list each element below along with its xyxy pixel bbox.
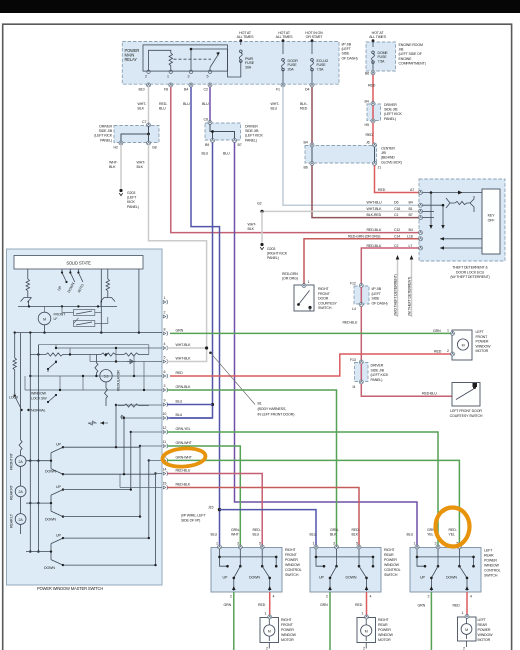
svg-text:4: 4 <box>164 342 166 346</box>
svg-text:GRN-WHT: GRN-WHT <box>176 441 193 445</box>
svg-text:WINDOWLOCK SW: WINDOWLOCK SW <box>31 392 47 401</box>
svg-text:3: 3 <box>164 384 166 388</box>
wire GRN s3 down <box>430 592 432 650</box>
wire BLU B4 down, jog right, down to J15 and switch 1 <box>191 87 220 548</box>
interior: arrows mid <box>88 421 108 425</box>
svg-text:H2: H2 <box>114 146 118 150</box>
LF motor box <box>452 330 472 360</box>
svg-text:2: 2 <box>230 595 232 599</box>
svg-text:3: 3 <box>435 542 437 546</box>
master pin 15 RED-BLK <box>163 485 167 489</box>
ground G203 right kick <box>260 243 263 250</box>
wire BLU B9 down to master rows <box>170 143 213 419</box>
right front door courtesy switch box <box>294 285 314 311</box>
interior: resistor row 354 b <box>101 353 149 356</box>
connector pin D4 <box>310 83 314 87</box>
svg-text:4: 4 <box>273 595 275 599</box>
relay pin stub 2 <box>190 49 192 71</box>
wire RED-BLU pin14 to right front switch <box>167 474 262 548</box>
annotation ellipse 2 (RED-YEL label) <box>436 508 470 547</box>
junction <box>211 130 214 133</box>
LF motor pin 2 <box>451 352 455 356</box>
svg-text:DOWN: DOWN <box>44 566 55 570</box>
RR motor circle <box>361 625 372 636</box>
switch case dot <box>308 306 311 309</box>
wire GRN s1 down <box>233 592 235 650</box>
master pin 14 RED-BLU <box>163 471 167 475</box>
svg-text:RED: RED <box>453 604 461 608</box>
svg-text:DOWN: DOWN <box>45 517 56 521</box>
interior: relay contact box 2 <box>74 321 95 327</box>
svg-text:LEFT FRONT DOORCOURTESY SWITCH: LEFT FRONT DOORCOURTESY SWITCH <box>450 409 483 418</box>
svg-text:2: 2 <box>145 75 147 79</box>
svg-text:L7: L7 <box>409 244 413 248</box>
svg-text:BLU: BLU <box>211 533 218 537</box>
theft internal top line <box>423 192 483 194</box>
connector pin center J/B bottom left <box>310 162 314 166</box>
relay coil zigzag <box>169 53 172 71</box>
svg-text:RED: RED <box>434 350 442 354</box>
svg-text:GRN-BLK: GRN-BLK <box>176 385 192 389</box>
interior: bus 306 <box>18 305 117 307</box>
s2 UP arm <box>330 566 337 591</box>
normal contact dot <box>27 409 29 411</box>
LF motor pin 1 <box>451 331 455 335</box>
left rear motor box <box>458 617 477 641</box>
driver side J/B box left <box>114 126 159 143</box>
master pin 1 <box>163 300 167 304</box>
svg-text:B7: B7 <box>238 143 242 147</box>
breaker REAR RT <box>15 486 26 497</box>
svg-text:1: 1 <box>164 296 166 300</box>
theft pin C14 <box>419 237 423 241</box>
svg-text:4: 4 <box>370 595 372 599</box>
wire GRN s2 down <box>329 592 331 650</box>
wire inside <box>360 287 362 303</box>
svg-text:B1: B1 <box>409 207 413 211</box>
fuse DOOR FUSE 20A <box>282 59 285 71</box>
svg-text:DOWN: DOWN <box>346 576 357 580</box>
wire inside <box>360 364 362 381</box>
svg-text:THEFT DETERRENT &DOOR LOCK ECU: THEFT DETERRENT &DOOR LOCK ECU(W/ THEFT … <box>450 266 489 280</box>
LF motor circle <box>457 339 468 350</box>
interior: REGULATOR circle <box>100 370 112 382</box>
interior: transistor T2 <box>101 294 115 306</box>
svg-text:GRN-WHT: GRN-WHT <box>176 455 193 459</box>
stub wire w theft <box>411 258 413 317</box>
svg-text:D4: D4 <box>305 88 309 92</box>
wire GRN-BLK pin3 to right rear switch <box>167 390 337 548</box>
master switch box <box>7 249 163 585</box>
theft pin A7 <box>419 191 423 195</box>
LR motor bottom stub <box>466 641 468 647</box>
driver side J/B box mid <box>205 123 241 140</box>
svg-text:GRN: GRN <box>224 603 232 607</box>
svg-text:(W/O THEFT DETERRENT): (W/O THEFT DETERRENT) <box>394 274 398 316</box>
svg-text:I4: I4 <box>353 385 356 389</box>
wire RED s3 to motor <box>466 592 468 616</box>
svg-text:2: 2 <box>428 595 430 599</box>
I/P J/B box small <box>354 286 369 304</box>
breaker FRONT RT <box>15 456 26 467</box>
switch arm courtesy RF <box>299 291 310 305</box>
interior: mesh lines mid <box>25 345 162 390</box>
connector pin B6 <box>371 71 375 75</box>
master pin 3 GRN-BLK <box>163 388 167 392</box>
theft resistor <box>455 201 470 204</box>
relay pin stub 3 <box>209 68 211 71</box>
engine room J/B box <box>366 42 396 71</box>
svg-text:DOWN: DOWN <box>45 469 56 473</box>
wire BLU purple B7 down across to rear switch <box>235 143 418 548</box>
interior: mode switch UP <box>62 269 67 282</box>
node dot ECU-IG feed <box>311 39 314 42</box>
svg-text:14: 14 <box>163 468 167 472</box>
wire RED-BLK pin15 to right rear switch <box>167 488 359 548</box>
interior: FRONT LF to bus <box>45 306 102 332</box>
svg-text:3: 3 <box>237 542 239 546</box>
wire RED s2 to motor <box>366 592 368 617</box>
RR motor bottom stub <box>365 643 367 649</box>
svg-text:J15: J15 <box>208 506 213 510</box>
svg-text:1: 1 <box>462 611 464 615</box>
window switch S2 REAR RT <box>26 490 63 517</box>
connector pin B7 <box>233 139 237 143</box>
theft internal vertical 2 <box>423 205 444 225</box>
wire RED s1 to motor <box>269 592 271 617</box>
relay coil loop <box>149 50 171 71</box>
theft internal diode <box>458 191 463 195</box>
interior: right resistor column <box>106 269 109 294</box>
svg-text:3: 3 <box>188 75 190 79</box>
svg-text:WHT-BLU: WHT-BLU <box>367 201 383 205</box>
interior: bus 332 GRN row <box>15 332 162 334</box>
interior: diode right <box>127 360 136 364</box>
theft transistor pair <box>446 198 455 208</box>
left front door courtesy switch box <box>452 383 480 407</box>
interior: resistor row 405 <box>118 404 149 407</box>
wire ECU-IG column <box>311 41 313 54</box>
svg-text:REAR RT: REAR RT <box>10 484 14 500</box>
svg-text:J6: J6 <box>366 141 370 145</box>
connector pin center J/B bottom right <box>373 162 377 166</box>
switch contact dot <box>297 303 300 306</box>
interior: relay contact box 1 <box>74 310 95 316</box>
svg-text:5: 5 <box>356 542 358 546</box>
interior: mid column <box>100 269 102 306</box>
svg-text:B4: B4 <box>365 100 369 104</box>
svg-text:B10: B10 <box>139 88 145 92</box>
svg-text:FRONT RT: FRONT RT <box>10 452 14 470</box>
master pin 10 BLU <box>163 416 167 420</box>
svg-text:RED-BLU: RED-BLU <box>367 228 382 232</box>
junction G2 <box>260 210 263 213</box>
svg-text:B4: B4 <box>409 228 413 232</box>
s2 DOWN arm <box>359 566 367 591</box>
svg-text:RED-BLU: RED-BLU <box>422 392 437 396</box>
wire BLK-RED down then to theft ECU <box>312 166 420 218</box>
relay contact arrow <box>216 52 219 56</box>
interior: window lock column <box>13 333 16 394</box>
svg-text:C14: C14 <box>394 235 400 239</box>
svg-text:F13: F13 <box>350 358 356 362</box>
svg-text:C16: C16 <box>394 207 400 211</box>
wire WHT-BLK B10 down <box>148 87 150 124</box>
callout line B1 <box>211 353 256 405</box>
svg-text:GRN: GRN <box>320 603 328 607</box>
svg-text:B4: B4 <box>304 141 308 145</box>
svg-text:(W/ THEFT DETERRENT): (W/ THEFT DETERRENT) <box>408 277 412 316</box>
svg-text:2: 2 <box>326 595 328 599</box>
svg-text:BLK-RED: BLK-RED <box>300 102 308 111</box>
svg-text:10: 10 <box>163 412 167 416</box>
svg-text:M: M <box>462 344 465 348</box>
solid state header box <box>14 256 143 270</box>
svg-text:DOWN: DOWN <box>446 576 457 580</box>
svg-text:BLU: BLU <box>407 533 414 537</box>
svg-text:B7: B7 <box>409 213 413 217</box>
svg-text:1: 1 <box>308 280 310 284</box>
fuse ECU-IG FUSE 7.5A <box>311 59 314 71</box>
theft row C2 with left arrow <box>440 247 482 249</box>
svg-text:ENGINE ROOMJ/B(LEFT SIDE OFENG: ENGINE ROOMJ/B(LEFT SIDE OFENGINECOMPART… <box>399 43 426 65</box>
svg-text:BLU: BLU <box>202 152 209 156</box>
wire WHT-BLU F1 down and across to theft ECU <box>283 87 420 205</box>
svg-text:GRN: GRN <box>418 604 426 608</box>
theft row C14 with left arrow <box>440 238 482 240</box>
svg-text:DOWN: DOWN <box>249 576 260 580</box>
s1 UP arm <box>234 566 241 591</box>
window switch S1 FRONT RT <box>26 447 63 474</box>
wire PWR fuse feed <box>240 41 242 45</box>
connector pin I4 <box>359 303 363 307</box>
svg-text:4: 4 <box>470 595 472 599</box>
svg-text:H5: H5 <box>365 123 369 127</box>
wire inside J/B mid <box>210 124 235 140</box>
svg-text:5: 5 <box>164 356 166 360</box>
right rear switch box <box>310 548 381 593</box>
wire BLU pin10 stub <box>167 417 213 419</box>
S1 tip runs <box>63 447 156 474</box>
s1 bottom pin arrows <box>232 586 272 590</box>
svg-text:3: 3 <box>333 542 335 546</box>
theft pin C2 <box>419 246 423 250</box>
theft internal vertical 1 <box>430 193 432 226</box>
svg-text:RED: RED <box>258 603 266 607</box>
svg-text:RED: RED <box>368 84 376 88</box>
node dot DOOR feed <box>282 39 285 42</box>
svg-text:C2: C2 <box>394 244 398 248</box>
pin 1 courtesy <box>302 284 306 288</box>
theft pin D6 <box>419 203 423 207</box>
connector pin F13 <box>359 360 363 364</box>
interior: mode switch AUTO <box>78 269 83 282</box>
wire BLU J15 to right rear switch <box>220 510 317 548</box>
svg-text:LOCK: LOCK <box>9 396 19 400</box>
svg-text:RED: RED <box>378 188 386 192</box>
svg-text:UP: UP <box>56 485 61 489</box>
wire GRN-YEL pin12 to left rear switch <box>167 432 438 548</box>
svg-text:M: M <box>365 630 368 634</box>
svg-text:UP: UP <box>56 534 61 538</box>
svg-text:POWER WINDOW MASTER SWITCH: POWER WINDOW MASTER SWITCH <box>37 586 103 591</box>
interior: long right column <box>138 269 140 333</box>
svg-text:B4: B4 <box>409 201 413 205</box>
callout dot B1 <box>209 352 212 355</box>
svg-text:5: 5 <box>207 75 209 79</box>
svg-text:RED-GRN(OR ORG): RED-GRN(OR ORG) <box>282 272 298 281</box>
S2 tip runs <box>63 490 140 517</box>
svg-text:UP: UP <box>420 576 425 580</box>
pins top s1 <box>218 545 222 549</box>
svg-text:GRN: GRN <box>433 329 441 333</box>
interior: regulator resistor down <box>105 382 108 406</box>
wire WHT-BLK to ground <box>120 145 122 189</box>
fuse DOME FUSE 7.5A <box>372 51 375 63</box>
svg-text:GRN: GRN <box>176 329 184 333</box>
driver side J/B box (dome red) <box>367 104 381 121</box>
right front switch box <box>211 548 282 593</box>
svg-text:BLU: BLU <box>310 533 317 537</box>
window switch S3 REAR LT <box>26 538 63 565</box>
svg-text:F12: F12 <box>350 282 356 286</box>
svg-text:F1: F1 <box>276 88 280 92</box>
s2 bottom pin arrows <box>328 586 368 590</box>
pins top s2 <box>314 545 318 549</box>
svg-text:RED: RED <box>176 371 184 375</box>
interior: diode arrow mid <box>120 415 125 419</box>
wire RED dome down <box>372 75 374 103</box>
svg-text:L4: L4 <box>352 307 356 311</box>
svg-text:1: 1 <box>265 612 267 616</box>
interior: left long verticals <box>30 333 38 504</box>
svg-text:B4: B4 <box>184 88 188 92</box>
s3 UP arm <box>431 566 438 591</box>
wire RED-BLU down <box>360 307 362 362</box>
master pin 8 GRN <box>163 331 167 335</box>
svg-text:WHT-BLK: WHT-BLK <box>176 343 192 347</box>
I/P J/B dashed box (left of dash) <box>122 42 339 85</box>
svg-text:RED-BLK: RED-BLK <box>176 483 191 487</box>
svg-text:A7: A7 <box>410 188 414 192</box>
wire inside J/B left <box>121 126 149 142</box>
connector pin G8 <box>147 141 151 145</box>
wire pin to bottom <box>148 134 150 142</box>
switch arm courtesy LF <box>456 389 474 400</box>
svg-text:C8: C8 <box>204 118 208 122</box>
svg-text:RED-BLU: RED-BLU <box>367 244 382 248</box>
s3 DOWN arm <box>459 566 467 591</box>
top black bar <box>0 0 520 13</box>
svg-text:F8: F8 <box>164 88 168 92</box>
svg-text:BLU: BLU <box>176 400 183 404</box>
connector pin F1 <box>281 83 285 87</box>
theft stub C1 <box>423 217 435 219</box>
svg-text:RED: RED <box>366 133 374 137</box>
svg-text:WHT-BLK: WHT-BLK <box>176 357 192 361</box>
master pin 5 WHT-BLK <box>163 359 167 363</box>
svg-text:12: 12 <box>163 426 167 430</box>
svg-text:B6: B6 <box>304 166 308 170</box>
svg-text:9: 9 <box>164 399 166 403</box>
interior: FRONT LF breaker circle <box>38 312 51 325</box>
svg-text:5: 5 <box>259 542 261 546</box>
right front motor box <box>260 618 279 643</box>
connector pin B4 top <box>371 102 375 106</box>
master pin 11 GRN-WHT <box>163 444 167 448</box>
driver side J/B box LF <box>355 363 369 382</box>
svg-text:L18: L18 <box>407 235 413 239</box>
relay U1 inner box <box>143 45 228 71</box>
svg-text:SOLID STATE: SOLID STATE <box>66 261 91 266</box>
junction BLU row <box>211 403 214 406</box>
wire RED center J/B to theft ECU <box>375 166 421 193</box>
wire dome feed <box>372 41 374 47</box>
connector pin F12 <box>359 284 363 288</box>
svg-text:B9: B9 <box>205 143 209 147</box>
svg-text:UP: UP <box>319 576 324 580</box>
wire RED master to LF motor <box>170 354 452 376</box>
wire RED-BLU F8 down and across to theft ECU <box>171 87 420 233</box>
svg-text:KEYOFF: KEYOFF <box>488 214 496 223</box>
svg-text:1: 1 <box>313 542 315 546</box>
svg-text:1: 1 <box>447 329 449 333</box>
interior: mode switch DOWN <box>70 269 75 282</box>
connector pin center J/B top left <box>310 143 314 147</box>
LR motor circle <box>461 624 472 635</box>
right rear motor box <box>357 618 376 643</box>
junction pin4 <box>205 346 208 349</box>
svg-text:C7: C7 <box>142 120 146 124</box>
theft arrow down 1 <box>429 225 432 229</box>
RF motor bottom stub <box>268 643 270 649</box>
svg-text:RED-GRN (OR ORG): RED-GRN (OR ORG) <box>348 235 380 239</box>
svg-text:2: 2 <box>447 349 449 353</box>
ground G203 left kick <box>119 189 122 196</box>
interior: transistor T1 <box>21 294 32 306</box>
interior: links to contact boxes <box>45 306 108 323</box>
svg-text:11: 11 <box>163 440 167 444</box>
svg-text:HOT IN ONOR START: HOT IN ONOR START <box>305 31 323 39</box>
svg-text:2: 2 <box>266 647 268 650</box>
wire WHT-BLK C16 row <box>262 210 420 212</box>
relay dashed link <box>174 58 212 60</box>
svg-text:1: 1 <box>167 75 169 79</box>
interior: vertical resistor 96 <box>95 355 98 376</box>
connector pin F8 <box>169 83 173 87</box>
svg-text:2: 2 <box>363 647 365 650</box>
center J/B box <box>305 146 377 164</box>
svg-text:B6: B6 <box>365 72 369 76</box>
svg-text:2: 2 <box>463 647 465 650</box>
svg-text:UP: UP <box>223 576 228 580</box>
fuse PWR FUSE 30A <box>239 50 242 62</box>
connector pin B4 <box>189 83 193 87</box>
interior: breaker chain column <box>19 333 22 534</box>
wire DOOR fuse column <box>282 41 284 54</box>
wire GRN-WHT pin11 to right front switch <box>167 446 240 548</box>
case mark LF <box>473 383 478 387</box>
lock switch arm <box>15 396 21 408</box>
s2 bus <box>316 549 373 567</box>
wire BLU pin9 stub <box>167 404 213 406</box>
svg-text:C12: C12 <box>394 228 400 232</box>
theft pin C16 <box>419 209 423 213</box>
interior: resistor row 354 <box>30 353 101 356</box>
connector pin I4b <box>359 380 363 384</box>
connector pin C7 <box>147 123 151 127</box>
svg-text:REAR LT: REAR LT <box>10 513 14 528</box>
